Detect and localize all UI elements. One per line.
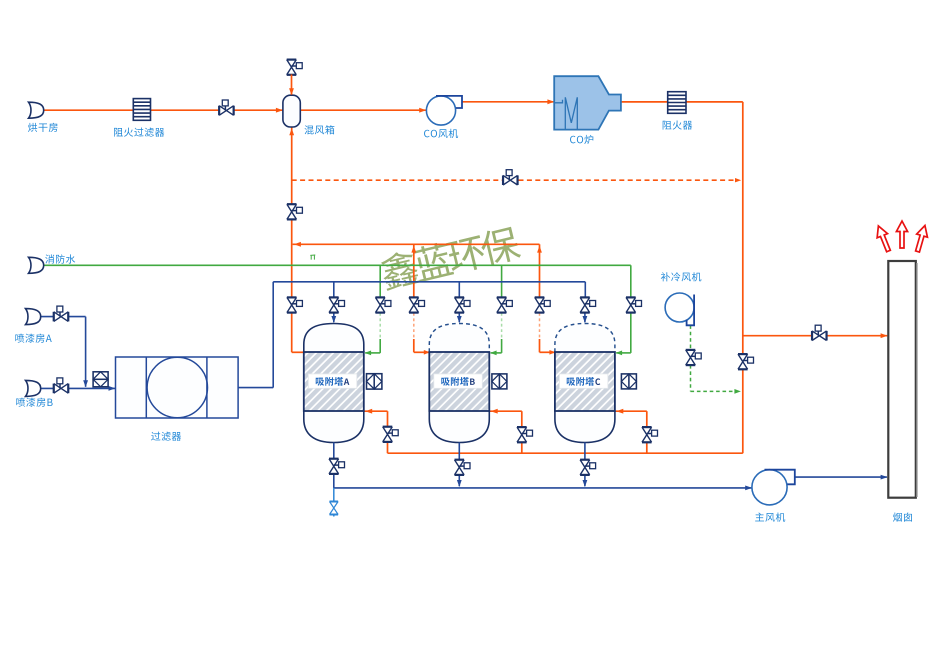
blue outlet tower C [584, 443, 586, 487]
inlet 消防水 [29, 257, 44, 273]
inlet 喷漆房B [26, 380, 41, 396]
green drop tower B [501, 265, 503, 297]
orange riser tower C [539, 244, 541, 313]
label 主风机 [755, 513, 785, 522]
aux cooling fan 补冷风机 [665, 293, 694, 322]
bottom valve tower A [329, 459, 345, 474]
top row valve orange A [287, 297, 303, 312]
wire booth A [40, 316, 86, 318]
orange outlet tower C bottom [616, 410, 647, 412]
wire fire water header 消防水 [44, 264, 631, 266]
aux fan dashed green line [690, 325, 692, 350]
damper symbol before filter [93, 372, 108, 387]
tower C label plate [559, 374, 608, 388]
label 吸附塔C [567, 377, 594, 386]
label 烘干房 [28, 123, 58, 132]
small drain valve [330, 502, 339, 515]
adsorption tower C vessel [555, 324, 615, 353]
top row valve green A [375, 297, 391, 312]
top row valve green B [497, 297, 513, 312]
blue bottom bus to main fan [334, 487, 752, 489]
mixing box 混风箱 [283, 95, 300, 127]
blue outlet tower B [458, 443, 460, 487]
red exhaust arrows [873, 224, 893, 253]
wire drying room to mixing box (orange main) [44, 109, 283, 111]
top row valve green C [626, 297, 642, 312]
green drop tower C [630, 265, 632, 353]
wire furnace to flame arrester to right riser [621, 101, 743, 103]
valve on dashed bypass [503, 170, 518, 185]
bottom valve tower C [580, 460, 596, 475]
adsorption tower B vessel [429, 324, 489, 353]
valve on right riser [738, 354, 754, 369]
wire orange into tower A left [292, 351, 304, 353]
tower B label plate [434, 374, 483, 388]
valve booth A [54, 306, 69, 321]
wire orange bottom bus [388, 452, 743, 454]
flame arrester filter 阻火过滤器 [133, 99, 150, 121]
label CO风机 [424, 129, 458, 138]
top row valve blue A [329, 297, 345, 312]
blue feed header [273, 281, 585, 283]
blue drop tower B [458, 282, 460, 298]
damper beside tower C [621, 374, 636, 389]
wire right orange riser down [742, 102, 744, 453]
adsorption tower A vessel [304, 324, 364, 353]
label CO炉 [570, 135, 593, 144]
dashed orange bypass line [292, 179, 738, 181]
orange outlet tower B bottom [490, 410, 522, 412]
wire mixing box bottom riser (desorption return) [291, 127, 293, 352]
damper beside tower B [492, 374, 507, 389]
bottom valve tower B [455, 460, 471, 475]
label 阻火器 [663, 121, 693, 130]
wire booth B [40, 387, 115, 389]
wire main fan outlet [795, 476, 887, 478]
label 过滤器 [151, 432, 181, 441]
wire CO fan outlet to furnace [462, 101, 555, 103]
valve above mixing box [287, 60, 302, 75]
chimney 烟囱 [888, 261, 916, 498]
top row valve blue B [455, 297, 471, 312]
top row valve blue C [580, 297, 596, 312]
top row valve orange C [535, 297, 551, 312]
label 阻火过滤器 [114, 127, 164, 136]
orange desorption header [293, 243, 540, 245]
label 吸附塔B [441, 377, 468, 386]
valve on drying line [219, 100, 234, 115]
blue drop tower A [333, 282, 335, 298]
CO furnace CO炉 [554, 76, 621, 129]
valve on chimney line [812, 325, 827, 340]
blue outlet tower A [333, 443, 335, 488]
flame arrester 阻火器 [668, 92, 686, 114]
green mark [310, 255, 315, 260]
label 消防水 [45, 254, 75, 263]
blue stub below bus [333, 488, 335, 501]
valve on mix riser upper [287, 204, 303, 219]
filter 过滤器 [116, 357, 239, 418]
orange outlet valve C [642, 427, 658, 442]
inlet 喷漆房A [26, 309, 41, 325]
label 喷漆房B [16, 398, 52, 407]
main fan 主风机 [752, 470, 787, 505]
wire filter outlet riser [238, 387, 273, 389]
wire mixing box to CO fan [300, 109, 426, 111]
valve booth B [54, 378, 69, 393]
wire valve to mixing box top [291, 74, 293, 94]
inlet 烘干房 [29, 102, 44, 118]
label 补冷风机 [661, 272, 702, 281]
blue drop tower C [584, 312, 586, 322]
label 喷漆房A [15, 334, 51, 343]
label 混风箱 [305, 125, 335, 134]
tower A label plate [308, 374, 357, 388]
orange outlet tower A bottom [365, 410, 388, 412]
green drop tower A [379, 265, 381, 297]
orange branch to chimney [743, 335, 888, 337]
label watermark [378, 224, 522, 291]
label 烟囱 [893, 513, 912, 522]
valve on aux fan line [686, 350, 702, 365]
label 吸附塔A [316, 377, 343, 386]
orange outlet valve B [517, 427, 533, 442]
orange outlet valve A [383, 427, 398, 442]
damper beside tower A [367, 374, 382, 389]
orange riser tower B [413, 244, 415, 313]
CO fan 风机 [426, 96, 455, 125]
top row valve orange B [409, 297, 425, 312]
